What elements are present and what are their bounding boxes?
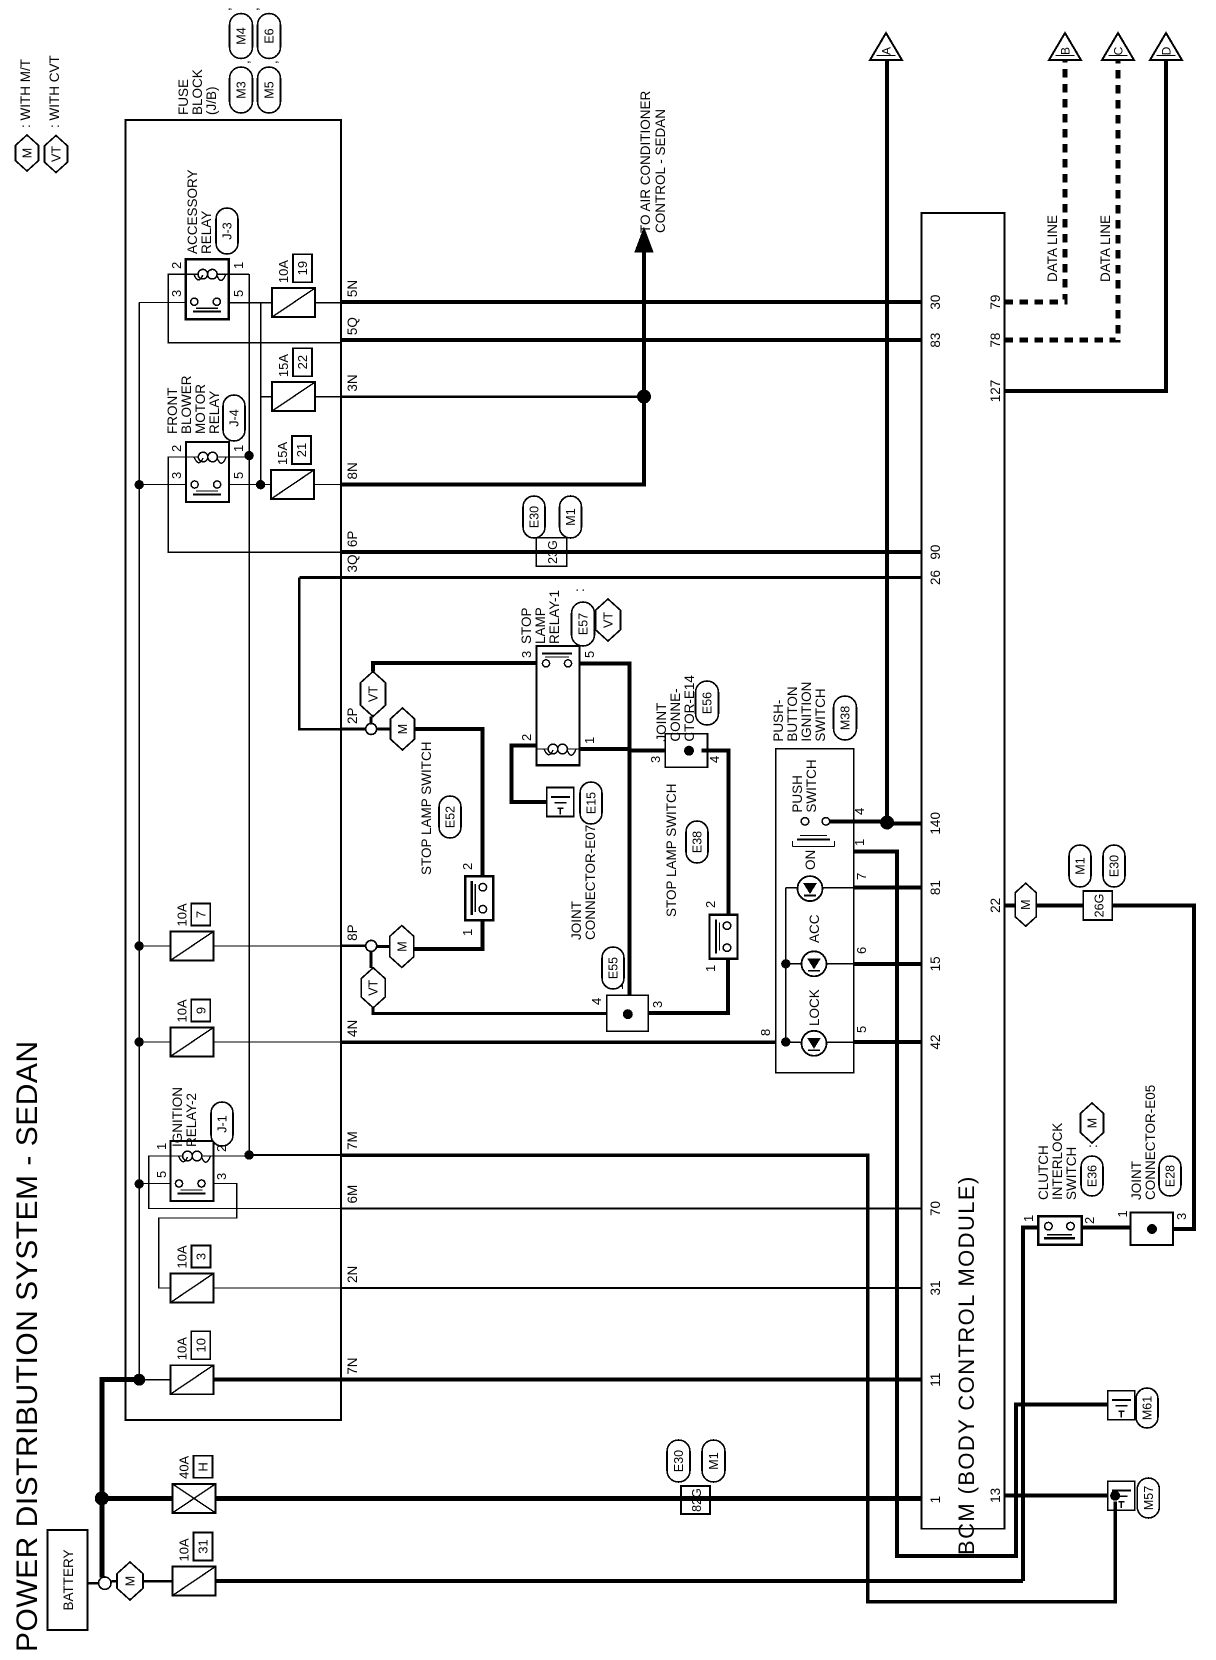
svg-text:CONNECTOR-E05: CONNECTOR-E05: [1143, 1085, 1158, 1200]
svg-text:3Q: 3Q: [345, 554, 360, 572]
svg-text:BLOWER: BLOWER: [179, 375, 194, 434]
svg-text:M: M: [396, 724, 410, 734]
svg-text:10: 10: [193, 1338, 208, 1352]
svg-text:M61: M61: [1141, 1396, 1155, 1420]
svg-text:M1: M1: [1074, 857, 1088, 874]
svg-text:,: ,: [237, 60, 252, 64]
svg-text:40A: 40A: [177, 1455, 192, 1478]
svg-text:CONTROL - SEDAN: CONTROL - SEDAN: [653, 109, 668, 233]
svg-text:ON: ON: [803, 850, 818, 870]
svg-text:7M: 7M: [345, 1131, 360, 1150]
svg-text:1: 1: [231, 445, 246, 452]
svg-text:M: M: [21, 148, 35, 158]
svg-text:23G: 23G: [546, 540, 560, 564]
svg-text:5: 5: [231, 290, 246, 297]
svg-text:SWITCH: SWITCH: [804, 759, 819, 812]
svg-text:2N: 2N: [345, 1266, 360, 1283]
svg-text:E38: E38: [691, 831, 705, 853]
svg-text:DATA LINE: DATA LINE: [1098, 215, 1113, 282]
svg-text:E15: E15: [585, 792, 599, 814]
svg-text:10A: 10A: [175, 1245, 190, 1268]
svg-text:10A: 10A: [174, 1337, 189, 1360]
svg-text:1: 1: [928, 1496, 943, 1504]
svg-text:BUTTON: BUTTON: [785, 686, 800, 741]
svg-text:19: 19: [295, 261, 310, 275]
svg-text:8P: 8P: [345, 924, 360, 941]
svg-text:E52: E52: [444, 806, 458, 828]
svg-text:6M: 6M: [345, 1185, 360, 1204]
svg-text:BCM (BODY CONTROL MODULE): BCM (BODY CONTROL MODULE): [954, 1175, 979, 1555]
svg-text:E30: E30: [672, 1450, 686, 1472]
svg-text:E30: E30: [528, 506, 542, 528]
svg-text:J-1: J-1: [216, 1115, 230, 1132]
svg-text:,: ,: [246, 7, 261, 11]
svg-text:10A: 10A: [174, 999, 189, 1022]
svg-text:2: 2: [169, 445, 184, 452]
svg-text:3: 3: [194, 1253, 209, 1260]
svg-text:H: H: [196, 1462, 211, 1471]
svg-text:15A: 15A: [275, 442, 290, 465]
svg-text:M5: M5: [263, 81, 277, 98]
svg-text:J-3: J-3: [221, 222, 235, 239]
svg-text:15A: 15A: [276, 354, 291, 377]
svg-text:JOINT: JOINT: [1129, 1161, 1144, 1200]
svg-text:6P: 6P: [345, 531, 360, 548]
svg-text:A: A: [880, 47, 894, 55]
svg-text:3: 3: [650, 1001, 665, 1008]
svg-text:DATA LINE: DATA LINE: [1045, 215, 1060, 282]
svg-text:BATTERY: BATTERY: [61, 1549, 76, 1610]
svg-text:9: 9: [193, 1007, 208, 1014]
svg-text:5: 5: [854, 1026, 869, 1033]
svg-text:90: 90: [928, 545, 943, 560]
svg-text:E30: E30: [1108, 855, 1122, 877]
svg-text:1: 1: [582, 737, 597, 744]
svg-text:4: 4: [852, 808, 867, 815]
svg-text:2: 2: [519, 734, 534, 741]
svg-text:1: 1: [460, 929, 475, 936]
svg-text:5Q: 5Q: [345, 317, 360, 335]
svg-text:E36: E36: [1086, 1165, 1100, 1187]
svg-text:8: 8: [758, 1029, 773, 1036]
svg-text:M38: M38: [839, 706, 853, 730]
svg-text:81: 81: [928, 880, 943, 895]
svg-text:D: D: [1160, 46, 1174, 55]
svg-text:26G: 26G: [1093, 894, 1107, 918]
svg-text::: :: [572, 588, 587, 592]
svg-text:1: 1: [1021, 1215, 1036, 1222]
svg-text:ACC: ACC: [807, 914, 822, 943]
svg-text:M: M: [124, 1576, 138, 1586]
svg-text:LAMP: LAMP: [533, 607, 548, 644]
svg-text:M: M: [1086, 1118, 1100, 1128]
svg-text:31: 31: [928, 1280, 943, 1295]
svg-text:M57: M57: [1142, 1486, 1156, 1510]
svg-text:10A: 10A: [276, 260, 291, 283]
svg-text:CLUTCH: CLUTCH: [1036, 1145, 1051, 1200]
svg-text:82G: 82G: [690, 1488, 704, 1512]
svg-text:FRONT: FRONT: [165, 388, 180, 435]
svg-text:M: M: [395, 941, 409, 951]
svg-text:STOP: STOP: [519, 607, 534, 644]
svg-text:M3: M3: [235, 81, 249, 98]
svg-text:JOINT: JOINT: [569, 901, 584, 940]
svg-text:VT: VT: [50, 146, 64, 162]
svg-text:IGNITION: IGNITION: [799, 682, 814, 742]
svg-text:3: 3: [648, 756, 663, 763]
svg-text:3N: 3N: [345, 374, 360, 391]
svg-text:3: 3: [169, 290, 184, 297]
svg-text:CONNE-: CONNE-: [668, 688, 683, 741]
svg-text:7: 7: [854, 873, 869, 880]
svg-text:70: 70: [928, 1201, 943, 1216]
svg-text:2: 2: [169, 262, 184, 269]
svg-text::: :: [1085, 1144, 1100, 1148]
svg-text:B: B: [1059, 47, 1073, 55]
svg-text:CONNECTOR-E07: CONNECTOR-E07: [583, 825, 598, 940]
svg-text:M: M: [1019, 899, 1033, 909]
svg-text:(J/B): (J/B): [204, 87, 219, 116]
svg-text:140: 140: [928, 812, 943, 835]
svg-text:5: 5: [582, 651, 597, 658]
svg-text:VT: VT: [367, 979, 381, 995]
svg-text:1: 1: [703, 965, 718, 972]
svg-text:RELAY-2: RELAY-2: [184, 1093, 199, 1147]
svg-text:RELAY: RELAY: [207, 391, 222, 434]
svg-text:E28: E28: [1164, 1165, 1178, 1187]
svg-text:22: 22: [988, 898, 1003, 913]
svg-text:SWITCH: SWITCH: [813, 688, 828, 741]
svg-text:2: 2: [703, 901, 718, 908]
svg-text:21: 21: [294, 443, 309, 457]
svg-text:M1: M1: [564, 508, 578, 525]
svg-text:M1: M1: [707, 1452, 721, 1469]
svg-text:VT: VT: [602, 612, 616, 628]
svg-text:79: 79: [988, 295, 1003, 310]
svg-text:C: C: [1112, 46, 1126, 55]
svg-text:1: 1: [154, 1143, 169, 1150]
svg-text:2: 2: [214, 1145, 229, 1152]
svg-text:E6: E6: [263, 28, 277, 43]
svg-text:POWER DISTRIBUTION SYSTEM - SE: POWER DISTRIBUTION SYSTEM - SEDAN: [11, 1040, 44, 1652]
svg-text:8N: 8N: [345, 462, 360, 479]
svg-text:4: 4: [707, 756, 722, 763]
svg-text:78: 78: [988, 333, 1003, 348]
svg-text:1: 1: [1115, 1210, 1130, 1217]
svg-text:,: ,: [218, 7, 233, 11]
svg-text:2: 2: [460, 863, 475, 870]
svg-text:22: 22: [295, 355, 310, 369]
svg-text:127: 127: [988, 380, 1003, 403]
svg-text:5: 5: [231, 472, 246, 479]
svg-text:LOCK: LOCK: [807, 989, 822, 1026]
svg-text:RELAY: RELAY: [199, 211, 214, 254]
svg-text:STOP LAMP SWITCH: STOP LAMP SWITCH: [664, 783, 679, 917]
svg-text:10A: 10A: [177, 1538, 192, 1561]
svg-text:IGNITION: IGNITION: [170, 1087, 185, 1147]
svg-text:STOP LAMP SWITCH: STOP LAMP SWITCH: [419, 741, 434, 875]
svg-text:JOINT: JOINT: [654, 703, 669, 742]
svg-text:BLOCK: BLOCK: [190, 69, 205, 115]
svg-text:SWITCH: SWITCH: [1064, 1147, 1079, 1200]
svg-text:3: 3: [519, 651, 534, 658]
svg-text:,: ,: [265, 60, 280, 64]
svg-text:: WITH M/T: : WITH M/T: [18, 59, 33, 128]
svg-text:ACCESSORY: ACCESSORY: [185, 169, 200, 254]
svg-text:11: 11: [928, 1373, 943, 1387]
svg-text:3: 3: [214, 1173, 229, 1180]
svg-text:E57: E57: [577, 613, 591, 635]
svg-text:26: 26: [928, 570, 943, 585]
svg-text:31: 31: [196, 1539, 211, 1553]
svg-text:E55: E55: [607, 957, 621, 979]
svg-text:7: 7: [193, 911, 208, 918]
svg-text:10A: 10A: [174, 903, 189, 926]
svg-text:J-4: J-4: [228, 409, 242, 426]
svg-text:13: 13: [988, 1488, 1003, 1503]
svg-text:PUSH-: PUSH-: [771, 700, 786, 742]
svg-text:3: 3: [169, 472, 184, 479]
svg-text:VT: VT: [367, 686, 381, 702]
svg-text:6: 6: [854, 947, 869, 954]
svg-text:E56: E56: [701, 692, 715, 714]
svg-text:4N: 4N: [345, 1020, 360, 1037]
svg-text:5N: 5N: [345, 280, 360, 297]
svg-text:2: 2: [1082, 1217, 1097, 1224]
svg-text:3: 3: [1174, 1213, 1189, 1220]
svg-text:2P: 2P: [345, 707, 360, 724]
svg-text:PUSH: PUSH: [790, 775, 805, 813]
svg-text:RELAY-1: RELAY-1: [547, 590, 562, 644]
svg-text:7N: 7N: [345, 1357, 360, 1374]
svg-text:1: 1: [852, 839, 867, 846]
svg-text:5: 5: [154, 1171, 169, 1178]
svg-text:83: 83: [928, 333, 943, 348]
svg-text:4: 4: [589, 998, 604, 1005]
svg-text:INTERLOCK: INTERLOCK: [1050, 1123, 1065, 1200]
svg-text:FUSE: FUSE: [176, 79, 191, 115]
svg-text:1: 1: [231, 262, 246, 269]
svg-text:M4: M4: [235, 27, 249, 44]
svg-text:42: 42: [928, 1034, 943, 1049]
svg-text:MOTOR: MOTOR: [193, 384, 208, 434]
svg-text:15: 15: [928, 956, 943, 971]
svg-text:TO AIR CONDITIONER: TO AIR CONDITIONER: [638, 90, 653, 233]
svg-text:: WITH CVT: : WITH CVT: [47, 55, 62, 128]
svg-text:30: 30: [928, 295, 943, 310]
